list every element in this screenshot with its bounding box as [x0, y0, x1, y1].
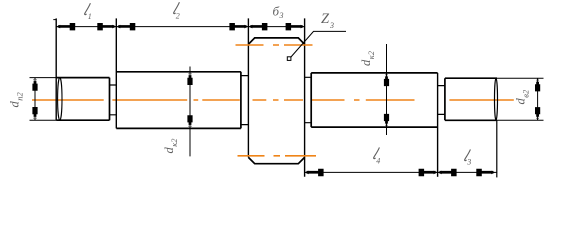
- dk2 B arrow up: [187, 72, 192, 85]
- l4 arrow right: [419, 169, 438, 176]
- svg-text:к2: к2: [169, 138, 179, 147]
- dv2 arrow up: [535, 78, 540, 91]
- dimension dk2 line (section B): [189, 67, 191, 157]
- relief groove between B and gear: [241, 76, 249, 125]
- label dk2 (section C diameter, rotated): [359, 50, 376, 66]
- gear top pitch line (orange dash-dot): [236, 44, 313, 46]
- dk2 C arrow down: [384, 114, 389, 127]
- svg-text:в2: в2: [520, 89, 530, 98]
- label dk2 (section B diameter, rotated): [162, 138, 179, 154]
- dimension dv2 line: [537, 78, 539, 120]
- relief groove between A and B: [110, 85, 117, 115]
- leader line to Z3: [291, 31, 347, 57]
- relief groove between gear and C: [305, 77, 312, 122]
- dimension dk2 line (section C): [386, 44, 388, 135]
- section A left end face / extension line: [55, 18, 57, 120]
- l3 arrow right: [476, 169, 495, 176]
- section C end face / extension line for l4 and l3: [437, 73, 439, 177]
- dimension line l4 (bottom): [305, 171, 438, 173]
- l1 arrow right: [97, 23, 116, 30]
- dimension dv2 extension lines (right end): [497, 78, 544, 120]
- l4 arrow left: [305, 169, 324, 176]
- svg-text:3: 3: [329, 21, 334, 30]
- svg-text:к2: к2: [366, 50, 376, 59]
- gear bottom pitch line (orange dash-dot): [238, 155, 317, 157]
- relief groove between C and D: [438, 86, 445, 115]
- svg-text:1: 1: [88, 12, 92, 21]
- gear right face / extension line for b3 and l4: [304, 18, 306, 176]
- gear (middle) outline with chamfers: [248, 38, 304, 164]
- l1 arrow left: [56, 23, 75, 30]
- dp2 arrow up: [32, 78, 37, 91]
- shaft section D outline: [445, 78, 497, 120]
- b3 arrow left: [248, 23, 267, 30]
- section A end chamfer ellipse: [58, 78, 62, 121]
- dk2 B arrow down: [187, 115, 192, 128]
- gear left face / extension line for b3: [247, 18, 249, 157]
- svg-text:2: 2: [176, 12, 180, 21]
- l2 arrow left: [116, 23, 135, 30]
- dimension line l2: [116, 26, 248, 28]
- label l4: [374, 147, 380, 158]
- dk2 C arrow up: [384, 73, 389, 86]
- dimension dp2 extension lines (left end): [30, 78, 57, 121]
- l3 arrow left: [438, 169, 457, 176]
- dimension line l1: [56, 26, 116, 28]
- label l1: [85, 3, 91, 14]
- leader square marker on gear: [287, 57, 291, 61]
- shaft section B outline: [116, 72, 241, 129]
- shaft section C outline: [311, 73, 437, 127]
- main centerline (orange dash-dot axis): [32, 99, 514, 101]
- svg-text:3: 3: [279, 11, 284, 20]
- section D end chamfer ellipse: [495, 78, 498, 120]
- dp2 arrow down: [32, 107, 37, 120]
- label l3: [465, 149, 471, 160]
- tick at top of left extension: [53, 19, 56, 21]
- label dv2 (right end diameter, rotated): [514, 89, 531, 104]
- svg-text:3: 3: [466, 158, 471, 167]
- section B left face / extension line: [115, 18, 117, 128]
- svg-text:Z: Z: [321, 11, 330, 27]
- svg-text:п2: п2: [14, 91, 24, 100]
- label l2: [174, 2, 180, 13]
- svg-text:4: 4: [376, 157, 380, 166]
- dimension line l3 (bottom right): [438, 171, 497, 173]
- b3 arrow right: [286, 23, 305, 30]
- label dp2 (left end diameter, rotated): [8, 91, 25, 107]
- dimension dp2 line: [34, 78, 36, 121]
- shaft section A (left journal) outline: [56, 78, 109, 121]
- section D right end face / extension line for l3: [496, 120, 498, 177]
- dv2 arrow down: [535, 107, 540, 120]
- svg-text:б: б: [273, 4, 280, 19]
- dimension line b3: [248, 26, 304, 28]
- l2 arrow right: [229, 23, 248, 30]
